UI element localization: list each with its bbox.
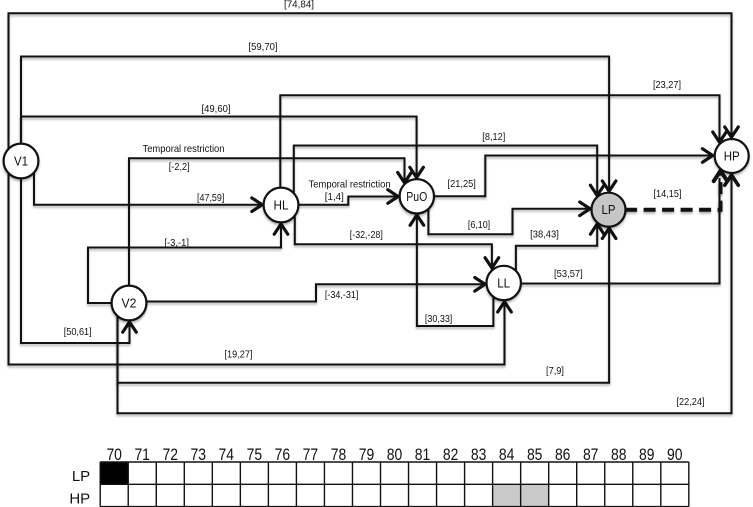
svg-text:[59,70]: [59,70] bbox=[249, 42, 278, 53]
svg-text:LP: LP bbox=[72, 468, 90, 485]
timeline grid bbox=[69, 446, 688, 507]
wire edge V1-LL [19,27] bbox=[9, 173, 512, 365]
node PuO bbox=[400, 179, 434, 213]
wire edge V1-V2 [50,61] bbox=[21, 178, 136, 343]
svg-text:[-32,-28]: [-32,-28] bbox=[350, 230, 383, 241]
svg-text:[22,24]: [22,24] bbox=[677, 397, 705, 408]
wire edge HL-PuO [1,4] bbox=[298, 179, 398, 204]
svg-text:[1,4]: [1,4] bbox=[325, 192, 344, 203]
wire edge V2-HP [22,24] bbox=[118, 175, 739, 413]
wire edge V1-LP [59,70] bbox=[21, 42, 616, 191]
svg-text:[53,57]: [53,57] bbox=[554, 269, 583, 280]
svg-text:[14,15]: [14,15] bbox=[654, 189, 682, 200]
svg-text:88: 88 bbox=[611, 446, 627, 464]
filled cell LP 70 bbox=[100, 462, 128, 484]
svg-text:[50,61]: [50,61] bbox=[64, 327, 92, 338]
wire edge V2-PuO [-2,2] bbox=[129, 144, 411, 286]
svg-text:74: 74 bbox=[219, 446, 235, 464]
wire edge LP-HP dashed [14,15] bbox=[625, 171, 727, 210]
wire edge HL-LL [-32,-28] bbox=[295, 216, 499, 268]
wire edge V1-HP [74,84] bbox=[9, 0, 739, 150]
svg-text:71: 71 bbox=[134, 446, 150, 464]
svg-text:73: 73 bbox=[191, 446, 207, 464]
svg-text:[21,25]: [21,25] bbox=[448, 179, 476, 190]
node LL bbox=[487, 266, 521, 300]
node HL bbox=[264, 188, 299, 223]
svg-text:79: 79 bbox=[359, 446, 375, 464]
grid lines bbox=[100, 462, 689, 507]
svg-text:87: 87 bbox=[583, 446, 599, 464]
svg-text:89: 89 bbox=[639, 446, 655, 464]
svg-text:78: 78 bbox=[331, 446, 347, 464]
shaded cell HP 85 bbox=[521, 484, 549, 506]
svg-text:70: 70 bbox=[106, 446, 122, 464]
svg-text:77: 77 bbox=[303, 446, 319, 464]
wire edge PuO-HP [21,25] bbox=[433, 149, 712, 197]
wire edge V1-HL [47,59] bbox=[34, 172, 262, 211]
svg-text:Temporal restriction: Temporal restriction bbox=[309, 179, 391, 190]
svg-text:[49,60]: [49,60] bbox=[202, 104, 231, 115]
svg-text:[-34,-31]: [-34,-31] bbox=[325, 290, 359, 301]
svg-text:86: 86 bbox=[555, 446, 571, 464]
svg-text:[74,84]: [74,84] bbox=[284, 0, 314, 11]
svg-text:[-2,2]: [-2,2] bbox=[169, 162, 190, 173]
svg-text:HP: HP bbox=[69, 490, 90, 507]
svg-text:V1: V1 bbox=[14, 155, 28, 169]
svg-text:[23,27]: [23,27] bbox=[653, 80, 681, 91]
svg-text:[8,12]: [8,12] bbox=[482, 132, 505, 143]
shaded cell HP 84 bbox=[493, 484, 521, 506]
svg-text:HL: HL bbox=[274, 199, 289, 213]
svg-text:PuO: PuO bbox=[406, 190, 427, 204]
wire edge LL-LP [38,43] bbox=[516, 224, 604, 272]
svg-text:80: 80 bbox=[387, 446, 403, 464]
wire edge V2-HL [-3,-1] bbox=[88, 224, 288, 303]
wire edge HL-LP [8,12] bbox=[294, 132, 604, 196]
wire edge LL-HP [53,57] bbox=[521, 178, 720, 284]
svg-text:84: 84 bbox=[499, 446, 515, 464]
node LP bbox=[592, 193, 626, 227]
svg-text:LP: LP bbox=[602, 203, 616, 217]
node V1 bbox=[4, 144, 39, 179]
wire edge HL-HP [23,27] bbox=[280, 80, 726, 188]
svg-text:85: 85 bbox=[527, 446, 543, 464]
svg-text:82: 82 bbox=[443, 446, 459, 464]
svg-text:[47,59]: [47,59] bbox=[197, 193, 224, 204]
svg-text:[6,10]: [6,10] bbox=[468, 220, 490, 231]
svg-text:[7,9]: [7,9] bbox=[546, 366, 564, 377]
svg-text:[38,43]: [38,43] bbox=[530, 230, 559, 241]
svg-text:HP: HP bbox=[724, 150, 740, 164]
wire edge V2-LL [-34,-31] bbox=[146, 278, 485, 302]
wire edge V1-PuO [49,60] bbox=[21, 104, 423, 178]
wire edge LL-PuO [30,33] bbox=[410, 215, 493, 326]
wire edge V2-LP [7,9] bbox=[118, 228, 616, 383]
svg-text:V2: V2 bbox=[122, 297, 137, 311]
svg-text:83: 83 bbox=[471, 446, 487, 464]
svg-text:75: 75 bbox=[247, 446, 263, 464]
svg-text:76: 76 bbox=[275, 446, 291, 464]
svg-text:[19,27]: [19,27] bbox=[225, 350, 253, 361]
svg-text:[-3,-1]: [-3,-1] bbox=[164, 238, 189, 249]
svg-text:90: 90 bbox=[667, 446, 683, 464]
svg-text:LL: LL bbox=[497, 277, 510, 291]
node V2 bbox=[112, 286, 147, 321]
svg-text:81: 81 bbox=[415, 446, 431, 464]
node HP bbox=[715, 139, 749, 173]
wire edge PuO-LP [6,10] bbox=[428, 202, 590, 234]
svg-text:[30,33]: [30,33] bbox=[425, 314, 453, 325]
svg-text:Temporal restriction: Temporal restriction bbox=[143, 144, 225, 155]
svg-text:72: 72 bbox=[163, 446, 179, 464]
